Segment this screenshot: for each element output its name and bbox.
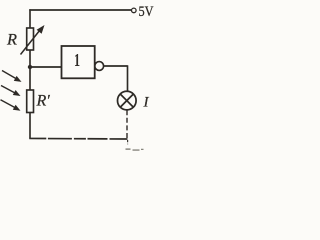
wire left vertical, bottom segment [29, 113, 31, 139]
svg-text:1: 1 [74, 51, 80, 71]
value label 5V [139, 4, 154, 20]
wire stub below bottom-right corner (scan) [127, 140, 129, 144]
svg-text:R: R [6, 32, 17, 49]
wire right vertical down to lamp [127, 65, 129, 91]
light arrow 2 [1, 86, 21, 97]
svg-text:I: I [143, 95, 150, 111]
arrow of variable resistor R [21, 25, 45, 55]
svg-text:5V: 5V [139, 4, 154, 20]
resistor R (variable, rheostat body) [27, 28, 34, 50]
wire bottom return rail [29, 137, 127, 140]
junction node (R, R', gate input) [28, 65, 32, 69]
wire gate output [104, 65, 128, 67]
wire top rail from R to 5V terminal [29, 9, 131, 11]
gate function label 1 [74, 51, 80, 71]
light arrow 3 [1, 100, 21, 111]
label I [143, 95, 150, 111]
wire gate input [30, 66, 62, 68]
scan specks below bottom-right corner [126, 149, 144, 151]
label R' [36, 93, 51, 110]
wire left vertical, top segment [29, 9, 31, 28]
inverter gate U1 (IEC symbol, box) [62, 46, 95, 78]
wire left vertical, middle segment [29, 50, 31, 90]
wire lamp to bottom rail (dashed) [126, 110, 128, 139]
photoresistor R' body [27, 90, 34, 113]
terminal 5V (open circle) [132, 8, 137, 13]
inverter output bubble [95, 62, 104, 71]
svg-text:R′: R′ [36, 93, 51, 110]
light arrow 1 [2, 71, 22, 82]
label R [6, 32, 17, 49]
lamp I (circle with X) [118, 91, 137, 110]
